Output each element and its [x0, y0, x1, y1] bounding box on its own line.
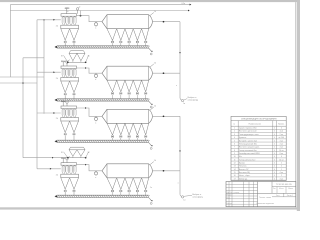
dryer 2 hopper valves	[111, 92, 147, 99]
filter 4 inlet pipe	[37, 168, 61, 170]
filter 1 relief indicator	[76, 6, 80, 13]
filter 3 inlet pipe	[37, 112, 61, 114]
dryer 2 exhaust line	[153, 72, 181, 74]
filter 1 outlet riser	[80, 11, 82, 16]
bag filter 4 hoppers	[61, 178, 79, 190]
receiving bin 2	[61, 147, 90, 158]
top header pipe 2	[10, 10, 189, 12]
svg-text:Батарейн. циклон 4шт: Батарейн. циклон 4шт	[239, 139, 257, 142]
title block	[226, 182, 296, 207]
bag filter 1 tag	[56, 26, 59, 28]
exhaust main upper	[176, 22, 181, 99]
filter 2 hopper valves	[64, 93, 75, 98]
svg-text:10: 10	[234, 156, 236, 158]
svg-text:4 шт: 4 шт	[280, 172, 284, 174]
svg-text:8: 8	[234, 150, 235, 152]
svg-text:в: в	[95, 177, 96, 179]
supply pipe A to left edge	[0, 76, 44, 78]
bag filter 1 cylinders	[62, 17, 76, 26]
conveyor 4 discharge chute	[149, 198, 153, 205]
svg-text:4: 4	[281, 128, 282, 130]
filter 3 relief indicator	[66, 100, 70, 107]
dryer 3 exhaust line	[153, 115, 181, 117]
rotary feeder 3	[94, 116, 97, 124]
svg-text:Затвор шлюзовой 6от: Затвор шлюзовой 6от	[239, 149, 257, 152]
filter 3 outlet duct	[77, 107, 103, 116]
page right edge band	[297, 0, 300, 211]
svg-text:4: 4	[274, 134, 275, 136]
svg-text:4: 4	[274, 156, 275, 158]
dryer drum 3 leader tag	[150, 106, 157, 111]
dryer 3 discharge hoppers	[107, 123, 149, 135]
svg-text:зв: зв	[67, 11, 69, 13]
dryer 1 discharge hoppers	[107, 29, 149, 41]
svg-text:2 шт: 2 шт	[280, 134, 284, 136]
svg-text:Н.контр.: Н.контр.	[227, 203, 233, 205]
dryer drum 2 shell	[102, 66, 153, 80]
filter 2 inlet pipe	[37, 71, 61, 73]
svg-text:16: 16	[234, 175, 236, 177]
dryer drum 4 shell	[102, 164, 153, 178]
svg-text:атмосферу: атмосферу	[192, 196, 202, 199]
svg-text:4: 4	[274, 143, 275, 145]
dryer 1 exhaust line	[153, 21, 181, 23]
svg-text:Фильтр рукавный 30м: Фильтр рукавный 30м	[239, 142, 258, 145]
svg-text:в: в	[95, 122, 96, 124]
svg-text:8 шт: 8 шт	[280, 153, 284, 155]
svg-text:2: 2	[281, 162, 282, 164]
svg-text:Питатель: Питатель	[239, 166, 247, 168]
svg-text:Насос, сборн.: Насос, сборн.	[239, 175, 251, 177]
svg-text:4 шт: 4 шт	[280, 143, 284, 145]
svg-text:Дымосос: Дымосос	[239, 137, 246, 139]
V2 upper branch	[23, 57, 44, 59]
stack 2	[180, 194, 203, 201]
dryer 4 discharge hoppers	[107, 178, 149, 190]
filter 3 hopper valves	[64, 133, 75, 140]
svg-text:17: 17	[234, 178, 236, 180]
svg-text:2: 2	[281, 175, 282, 177]
svg-text:Шибер др.: Шибер др.	[239, 178, 248, 180]
dryer drum 3 shell	[102, 109, 153, 123]
svg-text:24 шт: 24 шт	[279, 150, 284, 152]
filter 3 explosion vent	[61, 100, 66, 106]
svg-text:1з: 1з	[150, 187, 152, 189]
svg-text:4 шт: 4 шт	[280, 147, 284, 149]
svg-text:4: 4	[274, 172, 275, 174]
svg-text:4: 4	[274, 137, 275, 139]
page top edge band	[0, 0, 300, 2]
exhaust main lower	[178, 116, 181, 195]
svg-text:Изм Лист № докум.: Изм Лист № докум.	[227, 192, 241, 194]
drawing frame right border	[295, 2, 297, 207]
svg-text:4: 4	[234, 137, 235, 139]
svg-text:9: 9	[234, 153, 235, 155]
svg-text:№: №	[233, 123, 235, 126]
svg-text:Масшт: Масшт	[288, 188, 293, 190]
svg-text:4: 4	[274, 140, 275, 142]
svg-text:Пров.: Пров.	[227, 197, 231, 199]
svg-text:Вентилят. ВЦ: Вентилят. ВЦ	[239, 172, 251, 174]
svg-text:Ж: Ж	[61, 55, 63, 57]
svg-text:4: 4	[274, 147, 275, 149]
svg-text:в: в	[95, 79, 96, 81]
svg-text:Затвор-мигалка 6шт: Затвор-мигалка 6шт	[239, 159, 256, 161]
left riser pipe V1	[9, 5, 11, 77]
filter 4 explosion vent	[61, 157, 66, 163]
svg-text:4: 4	[274, 159, 275, 161]
bag filter 4 tag	[56, 175, 59, 177]
svg-text:Топка двухкамерн. полн.: Топка двухкамерн. полн.	[239, 134, 260, 136]
svg-text:Вентилят. циклонный: Вентилят. циклонный	[239, 130, 256, 133]
bag filter 3 body	[61, 118, 79, 122]
screw conveyor 1	[57, 46, 150, 48]
svg-text:ТХ 02.01.000 СБ: ТХ 02.01.000 СБ	[276, 184, 293, 186]
stack 1	[180, 97, 198, 105]
filter 1 explosion vent	[65, 7, 70, 14]
svg-text:4: 4	[274, 169, 275, 171]
svg-text:14: 14	[234, 169, 236, 171]
left bus V3	[36, 20, 38, 169]
svg-text:Вентилят. среднего давл.: Вентилят. среднего давл.	[239, 147, 260, 149]
svg-text:в: в	[95, 28, 96, 30]
conveyor 2 drive	[55, 99, 57, 101]
supply pipe B to left edge	[0, 82, 37, 84]
dryer drum 4 leader tag	[150, 160, 157, 165]
svg-text:4: 4	[274, 178, 275, 180]
dryer 1 hopper valves	[111, 40, 147, 45]
specification table	[231, 116, 286, 180]
bag filter 1 body	[61, 25, 79, 29]
filter 4 relief indicator	[66, 156, 70, 163]
svg-text:13: 13	[234, 166, 236, 168]
svg-text:об 24-4: об 24-4	[279, 137, 285, 139]
filter 1 inlet pipe	[37, 19, 61, 21]
bag filter 3 header	[61, 106, 77, 109]
svg-text:7: 7	[234, 147, 235, 149]
svg-text:24 шт: 24 шт	[279, 159, 284, 161]
V2 lower branch to bin 2 outlet	[23, 157, 68, 159]
svg-text:4 шт: 4 шт	[280, 178, 284, 180]
filter 4 outlet duct	[77, 164, 103, 171]
svg-text:4: 4	[281, 156, 282, 158]
svg-text:Конвейер винтовой Ш200: Конвейер винтовой Ш200	[239, 152, 260, 155]
screw conveyor 2	[57, 99, 150, 101]
dryer drum 1 leader tag	[150, 11, 157, 16]
svg-text:Лист: Лист	[276, 195, 280, 197]
svg-text:Сушил. барабан 2,8м: Сушил. барабан 2,8м	[239, 128, 257, 130]
rotary feeder 1	[94, 22, 97, 30]
conveyor 1 drive	[55, 46, 57, 48]
svg-text:Листов 1: Листов 1	[287, 195, 293, 197]
svg-text:11: 11	[234, 159, 236, 161]
dryer drum 2 leader tag	[150, 63, 157, 68]
svg-text:4: 4	[274, 150, 275, 152]
bag filter 2 hoppers	[61, 81, 79, 93]
conveyor 4 drive	[55, 195, 57, 197]
bag filter 2 header	[61, 66, 77, 69]
svg-text:4: 4	[274, 128, 275, 130]
filter 2 explosion vent	[61, 60, 66, 66]
bag filter 1 hoppers	[61, 29, 79, 41]
left bus V4	[43, 19, 44, 114]
svg-text:Разраб.: Разраб.	[227, 195, 233, 197]
bag filter 4 body	[61, 174, 79, 178]
bag filter 3 tag	[56, 118, 59, 120]
filter 1 outlet duct	[77, 15, 103, 22]
bag filter 2 body	[61, 78, 79, 82]
top header pipe 1	[10, 3, 191, 6]
svg-text:2: 2	[281, 166, 282, 168]
bag filter 2 cylinders	[62, 69, 76, 78]
page bottom edge band	[0, 207, 300, 209]
svg-text:Вытяжн. N7: Вытяжн. N7	[239, 169, 249, 171]
receiving bin 1	[61, 51, 90, 63]
svg-text:2: 2	[234, 131, 235, 133]
svg-text:Сушильное отделение: Сушильное отделение	[256, 203, 274, 205]
bag filter 3 cylinders	[62, 109, 76, 118]
svg-text:12: 12	[234, 162, 236, 164]
svg-text:СПЕЦИФИКАЦИЯ ОБОРУДОВАНИЯ: СПЕЦИФИКАЦИЯ ОБОРУДОВАНИЯ	[241, 118, 277, 121]
svg-text:4: 4	[274, 153, 275, 155]
svg-text:0,5в: 0,5в	[182, 3, 186, 5]
svg-text:5: 5	[234, 140, 235, 142]
dryer 3 hopper valves	[111, 135, 147, 140]
left bus V2	[22, 58, 24, 158]
bag filter 1 header	[61, 11, 77, 16]
filter 4 hopper valves	[64, 190, 75, 195]
filter 2 relief indicator	[66, 60, 70, 67]
svg-text:Ж: Ж	[61, 152, 63, 154]
svg-text:Технол. схема: Технол. схема	[259, 197, 271, 199]
svg-text:Ш-т: Ш-т	[239, 156, 242, 158]
svg-text:4 шт: 4 шт	[280, 140, 284, 142]
svg-text:15: 15	[234, 172, 236, 174]
bag filter 2 tag	[56, 78, 59, 80]
screw conveyor 4	[57, 195, 150, 197]
dryer drum 1 shell	[102, 15, 153, 29]
svg-text:4: 4	[274, 175, 275, 177]
dryer 4 exhaust line	[153, 170, 181, 172]
screw conveyor 3	[57, 140, 150, 142]
svg-text:атмосферу: атмосферу	[188, 99, 198, 102]
dryer 2 discharge hoppers	[107, 80, 149, 92]
svg-text:об-4: об-4	[280, 131, 283, 133]
svg-text:Бункер: Бункер	[239, 162, 245, 164]
svg-text:1: 1	[281, 169, 282, 171]
svg-text:6: 6	[234, 143, 235, 145]
filter 2 outlet duct	[77, 67, 103, 73]
bag filter 4 header	[61, 163, 77, 166]
dryer 4 hopper valves	[111, 190, 147, 196]
svg-text:1: 1	[234, 128, 235, 130]
conveyor 1 discharge chute	[149, 48, 153, 55]
bag filter 4 cylinders	[62, 166, 76, 175]
svg-text:Лит: Лит	[273, 188, 276, 190]
svg-text:1и: 1и	[183, 103, 185, 105]
svg-text:4: 4	[274, 162, 275, 164]
svg-text:Примеч.: Примеч.	[278, 124, 285, 126]
svg-text:4: 4	[274, 166, 275, 168]
filter 1 hopper valves	[64, 41, 75, 46]
svg-text:Масса: Масса	[279, 188, 284, 190]
svg-text:4: 4	[274, 131, 275, 133]
rotary feeder 4	[94, 171, 97, 179]
conveyor 3 discharge chute	[149, 143, 153, 150]
node 1з label	[150, 187, 152, 189]
bag filter 3 hoppers	[61, 121, 79, 133]
conveyor 3 drive	[55, 140, 57, 142]
svg-text:1и: 1и	[183, 200, 185, 202]
rotary feeder 2	[94, 73, 97, 81]
svg-text:Наименование: Наименование	[249, 124, 261, 126]
svg-text:3: 3	[234, 134, 235, 136]
conveyor 2 discharge chute	[149, 101, 153, 108]
